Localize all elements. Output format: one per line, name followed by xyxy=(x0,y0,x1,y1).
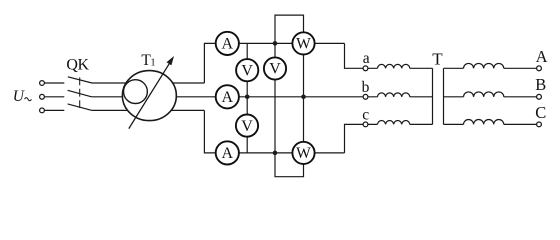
switch QK label xyxy=(66,56,89,73)
terminal C xyxy=(537,122,542,127)
wire xyxy=(45,96,65,98)
svg-text:a: a xyxy=(363,50,370,67)
wire between wattmeters x=303.5 xyxy=(303,43,305,152)
label T xyxy=(432,50,443,69)
svg-text:A: A xyxy=(222,89,234,106)
svg-text:U: U xyxy=(13,88,26,105)
secondary winding A xyxy=(464,63,504,68)
junction dot bottom row x=275 xyxy=(273,151,278,156)
wire xyxy=(504,96,537,98)
svg-text:V: V xyxy=(241,118,253,135)
wattmeter W1 xyxy=(292,32,314,54)
svg-text:A: A xyxy=(536,47,548,66)
junction dot row2 x=303.5 xyxy=(301,95,306,100)
junction dot top row x=275 xyxy=(273,41,278,46)
wire xyxy=(410,96,433,98)
wire xyxy=(504,67,537,69)
autotransformer T1 outer circle xyxy=(122,71,176,121)
switch QK linkage (dashed) xyxy=(79,77,81,108)
wire xyxy=(444,96,464,98)
svg-text:W: W xyxy=(296,36,311,53)
wire xyxy=(410,67,433,69)
label T1 xyxy=(141,52,155,69)
terminal B xyxy=(537,94,542,99)
primary winding c xyxy=(378,121,410,125)
wire xyxy=(410,123,433,125)
voltmeter V3 xyxy=(236,115,258,137)
svg-text:T: T xyxy=(432,50,443,69)
terminal a xyxy=(363,66,368,71)
wire corner down to bottom row xyxy=(204,110,216,152)
wire row1 switch to corner xyxy=(92,82,204,84)
label U~ xyxy=(13,88,26,105)
svg-text:C: C xyxy=(535,103,546,122)
wire voltmeter branch x=275 xyxy=(274,43,276,152)
svg-text:V: V xyxy=(241,62,253,79)
tilde subscript of U xyxy=(25,98,32,101)
primary winding b xyxy=(378,93,410,97)
wire wattmeter W1 voltage loop (top U) xyxy=(275,15,304,43)
secondary winding B xyxy=(464,92,504,97)
wire xyxy=(45,82,65,84)
ammeter A3 xyxy=(216,141,239,164)
svg-text:W: W xyxy=(296,145,311,162)
svg-text:A: A xyxy=(222,145,234,162)
wire xyxy=(504,123,537,125)
switch QK blade 2 xyxy=(68,90,92,97)
wire row3 switch to corner xyxy=(92,109,204,111)
ammeter A1 xyxy=(216,32,239,55)
wire wattmeter W2 voltage loop (bottom U) xyxy=(275,153,304,177)
primary star bus xyxy=(432,68,434,124)
wire row2 switch to transformer primary b xyxy=(92,96,378,98)
junction dot row2/V branch xyxy=(245,95,250,100)
svg-text:B: B xyxy=(535,75,546,94)
secondary star bus xyxy=(443,68,445,124)
input terminal 2 xyxy=(40,94,45,99)
voltmeter V1 xyxy=(236,59,258,81)
wire xyxy=(444,67,464,69)
svg-text:QK: QK xyxy=(66,56,89,73)
svg-text:b: b xyxy=(362,79,370,96)
svg-text:A: A xyxy=(222,36,234,53)
wire xyxy=(45,109,65,111)
wire top right corner down to terminal a xyxy=(345,43,378,68)
autotransformer T1 inner circle xyxy=(124,80,148,104)
svg-text:V: V xyxy=(269,61,281,78)
wire bottom meter row xyxy=(216,152,345,154)
wire xyxy=(444,123,464,125)
input terminal 3 xyxy=(40,108,45,113)
switch QK blade 3 xyxy=(68,104,92,111)
terminal A xyxy=(537,66,542,71)
secondary winding C xyxy=(464,120,504,125)
autotransformer T1 adjust arrow xyxy=(129,63,170,129)
svg-text:c: c xyxy=(362,107,369,124)
terminal b xyxy=(363,94,368,99)
ammeter A2 xyxy=(216,85,239,108)
wattmeter W2 xyxy=(292,142,314,164)
terminal c xyxy=(363,122,368,127)
input terminal 1 xyxy=(40,81,45,86)
wire voltmeter branch x=247 xyxy=(246,43,248,152)
wire top meter row xyxy=(216,42,345,44)
wire bottom right corner up to terminal c xyxy=(345,124,378,152)
primary winding a xyxy=(378,64,410,68)
wire corner up to ammeter row xyxy=(204,43,215,83)
voltmeter V2 xyxy=(264,57,286,79)
switch QK blade 1 xyxy=(68,77,92,83)
svg-text:1: 1 xyxy=(150,58,155,69)
